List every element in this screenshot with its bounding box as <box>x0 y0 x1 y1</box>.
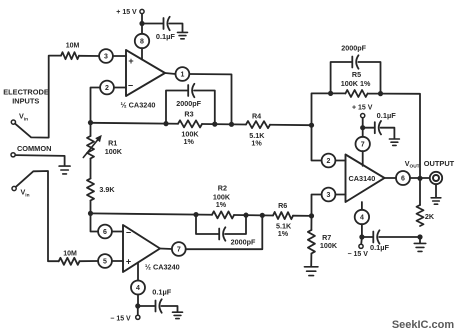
wire R2 row left <box>91 213 213 214</box>
wire pin3 to triangle <box>113 55 126 57</box>
svg-text:−: − <box>128 80 133 90</box>
terminal Vin1 electrode input <box>11 120 15 124</box>
ground A2 bypass <box>173 311 183 313</box>
pin 3 circle <box>99 49 113 63</box>
ground 2K node <box>419 237 421 243</box>
svg-text:0.1µF: 0.1µF <box>370 243 390 252</box>
wire COMMON to ground <box>15 155 64 166</box>
svg-text:4: 4 <box>136 285 140 292</box>
resistor R2 100K <box>212 211 234 218</box>
svg-text:0.1µF: 0.1µF <box>152 288 172 297</box>
junction dot R5 left <box>328 91 333 96</box>
wire Vin1 lead to 10M <box>15 56 61 138</box>
wire R3 to R4 <box>202 123 246 125</box>
svg-text:R3: R3 <box>184 109 193 118</box>
wire triangle to pin4 <box>137 263 139 281</box>
junction dot R4 right node <box>309 123 314 128</box>
svg-text:R6: R6 <box>278 201 287 210</box>
svg-text:+: + <box>128 56 133 66</box>
terminal -15V CA3140 <box>360 239 363 244</box>
svg-text:+ 15 V: + 15 V <box>116 9 137 16</box>
node A junction dot (R1 top) <box>88 120 93 125</box>
svg-text:INPUTS: INPUTS <box>12 97 39 106</box>
svg-text:− 15 V: − 15 V <box>347 251 368 258</box>
wire pin4 to -15V rail <box>137 295 139 307</box>
wire R1 to 3.9K <box>90 159 92 179</box>
svg-text:7: 7 <box>361 142 365 149</box>
svg-text:100K: 100K <box>105 147 123 156</box>
wire jack to ground <box>435 184 437 197</box>
ground COMMON <box>59 165 70 167</box>
wire pin3 to triangle <box>335 194 345 196</box>
svg-text:1%: 1% <box>184 137 195 146</box>
svg-text:6: 6 <box>401 176 405 183</box>
svg-text:SeekIC.com: SeekIC.com <box>392 319 455 331</box>
potentiometer R1 100K <box>87 136 94 159</box>
svg-text:2K: 2K <box>425 212 435 221</box>
capacitor 2000pF loop over R5 <box>331 62 352 93</box>
wire node A to R1 <box>90 123 92 136</box>
wire R7 to ground <box>310 254 312 267</box>
svg-text:ELECTRODE: ELECTRODE <box>3 87 49 96</box>
resistor R7 100K <box>308 230 315 254</box>
junction dot -15V rail A2 <box>135 303 140 308</box>
wire pin8 to triangle <box>141 48 143 59</box>
wire pin2 to triangle <box>114 87 126 89</box>
svg-text:7: 7 <box>177 247 181 254</box>
wire pin5 to triangle <box>112 260 123 262</box>
svg-text:2: 2 <box>105 85 109 92</box>
junction dot 2K bottom <box>417 234 422 239</box>
wire rail to cap CA3140 top <box>363 127 375 129</box>
wire pin1 output to feedback node <box>189 74 231 124</box>
svg-text:8: 8 <box>140 39 144 46</box>
wire pin4 to -15V rail CA3140 <box>361 224 363 237</box>
op-amp U1a triangle 1/2 CA3240 <box>126 50 165 96</box>
output connector jack <box>430 172 442 184</box>
svg-text:+: + <box>126 256 131 266</box>
junction dot pin7 feedback node <box>260 213 265 218</box>
pin 1 circle <box>176 67 190 81</box>
junction dot +15V rail A1 <box>139 21 144 26</box>
junction dot R6 right node <box>309 213 314 218</box>
wire pin6 to output <box>410 177 430 179</box>
wire rail to cap A2 <box>138 305 155 307</box>
capacitor 0.1uF (CA3140 -15V bypass) <box>372 232 374 243</box>
pin 2 circle <box>100 81 114 95</box>
wire pin2 node up to R5 row <box>312 93 346 125</box>
junction dot output feedback node <box>229 122 234 127</box>
resistor 10M (top) <box>61 52 79 59</box>
op-amp U2 triangle CA3140 <box>346 155 385 203</box>
capacitor 0.1uF (A2 -15V bypass) <box>155 301 157 312</box>
pin 6 circle <box>98 225 112 239</box>
svg-text:+ 15 V: + 15 V <box>352 105 373 112</box>
svg-text:COMMON: COMMON <box>17 144 52 153</box>
svg-text:½ CA3240: ½ CA3240 <box>145 263 180 272</box>
svg-text:R2: R2 <box>218 183 227 192</box>
wire R6 to pin3 node <box>293 215 312 217</box>
ground CA3140 top bypass <box>389 138 399 140</box>
svg-text:6: 6 <box>103 229 107 236</box>
pin 7 circle CA3140 <box>356 137 370 151</box>
resistor 3.9K <box>87 179 94 201</box>
resistor R6 5.1K <box>273 212 293 219</box>
ground A1 bypass <box>178 31 188 33</box>
svg-text:2000pF: 2000pF <box>176 99 201 108</box>
pin 2 circle CA3140 <box>322 154 336 168</box>
svg-text:2000pF: 2000pF <box>231 237 256 246</box>
resistor R3 100K <box>178 120 202 127</box>
wire pin2 branch down to node A <box>91 88 101 124</box>
wire R6 node down to R7 <box>310 216 312 230</box>
terminal +15V (top left) <box>141 14 143 22</box>
capacitor 0.1uF (CA3140 +15V bypass) <box>374 122 376 133</box>
junction dot +15V CA3140 <box>360 125 365 130</box>
pin 7 circle (A2 out) <box>172 242 186 256</box>
wire apex to pin1 <box>165 73 176 74</box>
junction dot R5 right <box>378 91 383 96</box>
wire R5 to output drop <box>368 94 420 205</box>
wire cap to 2K ground node <box>379 236 420 238</box>
wire capacitor to ground <box>169 24 182 33</box>
svg-text:0.1µF: 0.1µF <box>156 32 176 41</box>
terminal Vin2 electrode input <box>12 186 16 190</box>
junction dot R3 row left <box>163 121 168 126</box>
svg-text:5: 5 <box>103 259 107 266</box>
wire cap to ground CA3140 top <box>381 128 395 139</box>
ground R7 <box>304 266 318 268</box>
wire 10M to pin5 <box>80 260 99 262</box>
svg-text:10M: 10M <box>63 250 77 257</box>
wire 10M to pin3 <box>79 55 99 57</box>
svg-text:1%: 1% <box>278 229 289 238</box>
wire pin6 branch to node B <box>91 214 99 232</box>
pin 4 circle CA3140 <box>355 210 369 224</box>
wire R2 to R6 <box>234 214 273 216</box>
pin 4 circle <box>131 281 145 295</box>
wire apex to pin7 <box>160 248 172 251</box>
wire triangle to pin4 CA3140 <box>361 202 363 210</box>
resistor R5 100K <box>345 90 367 97</box>
svg-text:2000pF: 2000pF <box>341 43 366 52</box>
pin 8 circle <box>135 34 149 48</box>
svg-text:1%: 1% <box>216 200 227 209</box>
ground output jack <box>431 197 441 199</box>
svg-text:1%: 1% <box>251 138 262 147</box>
pin 3 circle CA3140 <box>322 188 336 202</box>
svg-text:2: 2 <box>327 158 331 165</box>
svg-text:10M: 10M <box>66 42 80 49</box>
capacitor 0.1uF (A1 +15V bypass) <box>163 18 165 29</box>
wire pin2 node down to pin2 <box>312 125 322 160</box>
terminal -15V (bottom left) <box>137 308 139 315</box>
wire R3 row <box>91 122 179 125</box>
wire Vin2 lead to 10M bottom <box>16 171 59 261</box>
svg-text:R5: R5 <box>352 70 361 79</box>
wire pin8 to +15V rail <box>141 24 143 34</box>
svg-text:100K 1%: 100K 1% <box>341 79 371 88</box>
svg-text:100K: 100K <box>320 241 338 250</box>
svg-text:OUTPUT: OUTPUT <box>424 159 455 168</box>
wire rail to cap CA3140 bottom <box>362 236 373 238</box>
wire pin6 to triangle <box>112 231 123 233</box>
wire pin7 to triangle <box>362 151 364 166</box>
svg-text:− 15 V: − 15 V <box>110 315 131 322</box>
resistor R4 5.1K <box>246 121 270 128</box>
wire 3.9K to node B <box>90 201 92 214</box>
svg-text:3: 3 <box>327 192 331 199</box>
op-amp U1b triangle 1/2 CA3240 <box>123 225 160 272</box>
svg-text:½ CA3240: ½ CA3240 <box>121 101 156 110</box>
capacitor 2000pF loop under R2 <box>196 215 219 234</box>
wire pin7 feedback up to row <box>186 215 263 249</box>
svg-text:1: 1 <box>180 72 184 79</box>
svg-text:−: − <box>126 227 131 237</box>
wire cap to ground A2 <box>161 306 177 312</box>
junction dot R3 row right <box>212 122 217 127</box>
capacitor 2000pF loop over R3 <box>166 91 188 124</box>
wire pin7 to +15V rail <box>362 128 364 137</box>
junction dot R2 right <box>243 213 248 218</box>
svg-text:4: 4 <box>360 215 364 222</box>
svg-text:3: 3 <box>104 54 108 61</box>
svg-text:R4: R4 <box>252 111 261 120</box>
svg-text:3.9K: 3.9K <box>99 185 115 194</box>
wire R6 node up to pin3 <box>312 195 322 216</box>
junction dot output node <box>417 176 422 181</box>
junction dot -15V CA3140 <box>359 234 364 239</box>
junction dot R2 left <box>193 212 198 217</box>
pin 6 circle CA3140 out <box>396 171 410 185</box>
resistor 10M (bottom) <box>59 258 80 265</box>
svg-text:CA3140: CA3140 <box>349 174 376 183</box>
wire R4 to CA3140 pin2 node <box>270 124 312 126</box>
resistor 2K <box>417 205 424 226</box>
wire pin2 to triangle <box>335 160 345 162</box>
pin 5 circle <box>98 254 112 268</box>
wire rail to capacitor <box>142 23 163 25</box>
node B junction dot <box>88 211 93 216</box>
svg-text:0.1µF: 0.1µF <box>377 111 397 120</box>
terminal +15V CA3140 <box>362 118 364 126</box>
wire apex to pin6 <box>385 177 396 179</box>
